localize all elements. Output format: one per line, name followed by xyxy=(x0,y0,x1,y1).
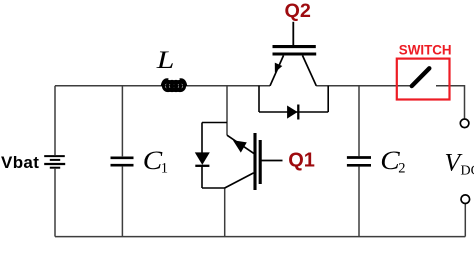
diode D1 (antiparallel with Q1) xyxy=(195,123,227,189)
wire bottom rail xyxy=(55,236,465,238)
IGBT Q2 xyxy=(270,22,316,86)
capacitor C2 xyxy=(347,158,371,166)
svg-text:DC: DC xyxy=(461,163,474,178)
svg-text:Q2: Q2 xyxy=(285,0,311,22)
wire C1 branch lower xyxy=(121,167,123,237)
inductor L xyxy=(162,80,186,91)
switch blade xyxy=(412,68,430,86)
svg-text:Q1: Q1 xyxy=(288,150,315,172)
diode D2 (antiparallel with Q2) xyxy=(259,86,328,120)
svg-text:1: 1 xyxy=(161,160,168,176)
wire top rail left segment xyxy=(55,85,270,87)
wire C2 branch upper xyxy=(358,86,360,156)
wire C2 branch lower xyxy=(358,167,360,237)
svg-text:SWITCH: SWITCH xyxy=(399,43,452,58)
IGBT Q1 xyxy=(225,133,283,190)
wire Q1 collector drop xyxy=(226,86,228,135)
svg-text:L: L xyxy=(156,47,175,74)
svg-text:Vbat: Vbat xyxy=(1,153,39,172)
wire C1 branch upper xyxy=(121,86,123,157)
wire Q1 emitter drop xyxy=(224,188,226,237)
wire top rail right segment xyxy=(316,85,412,87)
output terminal bottom xyxy=(461,195,470,204)
wire output bottom vertical xyxy=(464,204,466,237)
battery Vbat xyxy=(44,156,65,168)
capacitor C1 xyxy=(111,158,134,165)
wire switch to output corner xyxy=(436,86,465,119)
wire left vertical upper xyxy=(54,86,56,155)
wire left vertical lower xyxy=(54,169,56,237)
svg-text:2: 2 xyxy=(398,160,405,176)
output terminal top xyxy=(460,119,469,128)
switch box xyxy=(397,59,450,100)
